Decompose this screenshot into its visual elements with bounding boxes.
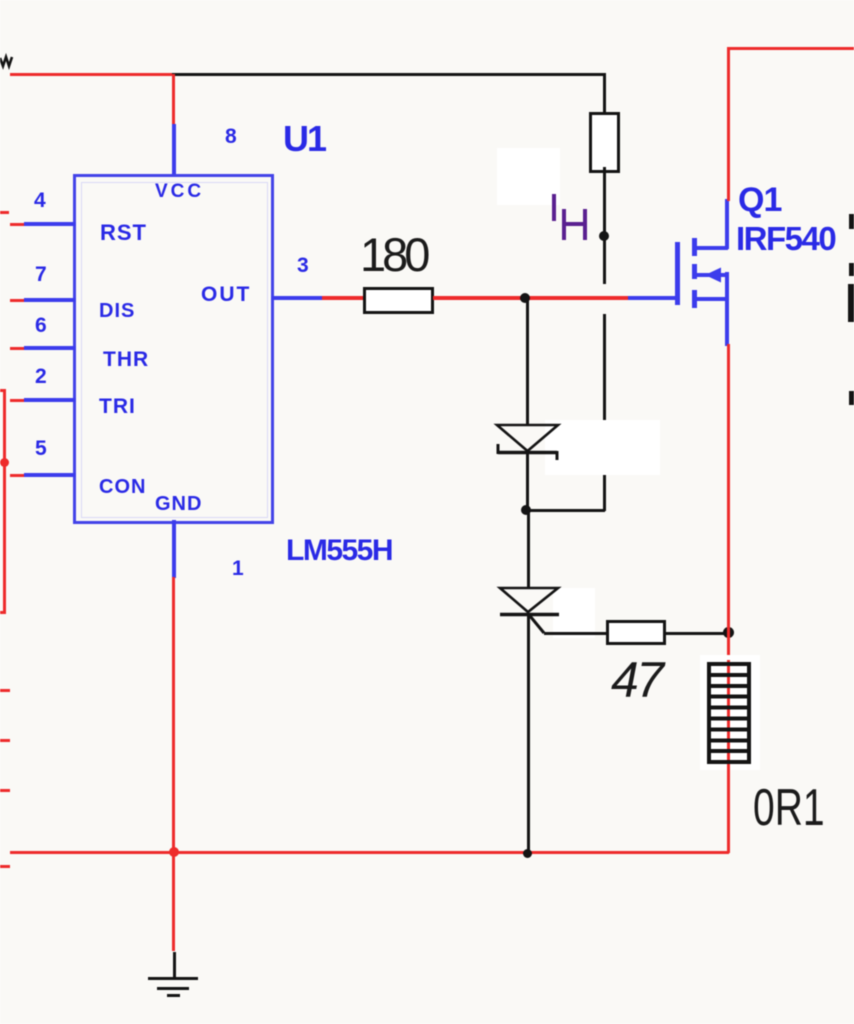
IC U1 inner faint border [81, 182, 268, 518]
label CON [99, 477, 146, 497]
IC U1 LM555 box [73, 174, 274, 524]
wire black ground stub [173, 952, 176, 978]
wire black I_H down upper segment [603, 239, 606, 284]
left edge red vertical wire [3, 389, 6, 614]
label U1 [283, 121, 325, 157]
label LM555H [286, 536, 392, 566]
MOSFET Q1 gate bar [675, 242, 680, 305]
resistor 47 box [606, 620, 666, 645]
pin number 1 [232, 558, 244, 579]
right edge cut text mark c [848, 284, 854, 322]
wire GND red drop [172, 577, 175, 951]
wire VCC drop blue segment (pin 8) [172, 124, 176, 176]
resistor 180 box [363, 287, 434, 314]
label VCC [155, 182, 204, 201]
left edge red tick e [0, 865, 10, 868]
pin number 3 [297, 255, 309, 276]
node junction dot zener mid [521, 505, 531, 515]
right edge cut text mark a [849, 214, 854, 229]
ground symbol bar 2 [157, 987, 189, 991]
white patch behind I_H [497, 148, 560, 205]
label 47 [611, 655, 662, 705]
label GND [155, 494, 202, 514]
pin 1 GND blue stub [172, 520, 176, 578]
label DIS [99, 301, 135, 321]
wire black between zeners [526, 452, 529, 512]
sense resistor top wire black [603, 74, 606, 115]
sense resistor bottom wire black [603, 167, 606, 238]
pin 2 TRI red tip [10, 399, 26, 402]
ground symbol bar 3 [167, 994, 180, 998]
label 0R1 [753, 782, 825, 834]
pin number 6 [35, 315, 47, 336]
wire black I_H down lower segment [603, 314, 606, 511]
label OUT [201, 284, 251, 305]
label I_H current (I) [552, 194, 556, 221]
pin 4 RST blue stub [24, 222, 76, 226]
left edge red tick b [0, 689, 10, 692]
label RST [100, 222, 147, 244]
wire black zener tap down [526, 300, 529, 426]
right edge cut text mark d [849, 391, 854, 405]
pin 7 DIS red tip [10, 299, 26, 302]
MOSFET Q1 drain vertical [725, 199, 730, 249]
node black junction dot zener bottom [523, 849, 532, 858]
left edge red bottom stub [0, 611, 5, 614]
cut-off label top-left [0, 50, 16, 72]
wire red drain up [727, 47, 730, 201]
shunt resistor 0R1 ladder [707, 662, 751, 764]
label TRI [99, 396, 136, 417]
pin 3 OUT blue stub [271, 296, 323, 300]
sense resistor box [589, 112, 620, 173]
left edge red top stub [0, 389, 5, 392]
zener diode D2 [492, 580, 572, 640]
MOSFET Q1 channel segment top [692, 238, 697, 256]
pin number 5 [35, 438, 47, 459]
label I_H current (H crossbar) [562, 222, 587, 226]
node junction dot at shunt top [723, 627, 734, 638]
MOSFET Q1 source horizontal [696, 297, 728, 301]
zener diode D1 [490, 418, 570, 468]
pin 4 RST red tip [10, 223, 26, 226]
pin number 8 [225, 126, 237, 147]
pin 6 THR red tip [10, 347, 26, 350]
right edge cut text mark b [849, 263, 854, 276]
wire black mid connector horizontal [526, 509, 605, 512]
node red dot on left wire [0, 458, 9, 467]
MOSFET Q1 drain horizontal [694, 246, 728, 250]
pin 5 CON blue stub [24, 473, 76, 477]
wire OUT red resistor to gate [433, 296, 631, 300]
white patch behind shunt [700, 655, 760, 770]
label Q1 [738, 183, 781, 217]
node junction dot at OUT/zener tap [520, 293, 530, 303]
pin number 7 [35, 264, 47, 285]
pin 7 DIS blue stub [24, 298, 76, 302]
white patch right of zener D2 [553, 588, 595, 638]
left edge red tick a [0, 211, 9, 214]
wire black zener to 47 resistor [544, 632, 607, 635]
MOSFET Q1 body arrowhead [705, 267, 722, 283]
pin number 4 [34, 190, 46, 211]
wire red top right rail [727, 47, 854, 50]
pin 6 THR blue stub [24, 346, 76, 350]
wire VCC drop red segment [172, 74, 175, 125]
node red junction dot GND rail [169, 847, 179, 857]
wire black zener D2 down to bottom rail [527, 614, 530, 854]
label I_H current (H left bar) [562, 209, 566, 240]
MOSFET Q1 gate wire blue [628, 296, 679, 300]
wire red bottom rail [10, 851, 729, 854]
wire VCC top red [10, 73, 173, 76]
wire black 47 to shunt [665, 632, 729, 635]
node I_H junction dot [599, 231, 609, 241]
label IRF540 [736, 222, 835, 255]
wire top black to sense resistor [172, 73, 606, 76]
left edge red tick c [0, 739, 10, 742]
MOSFET Q1 source vertical [725, 272, 730, 346]
wire red source down [727, 344, 730, 664]
ground symbol bar 1 [148, 977, 198, 981]
MOSFET Q1 channel segment middle [692, 264, 697, 279]
label 180 [360, 231, 426, 278]
MOSFET Q1 body arrow line [697, 273, 728, 277]
left edge red tick d [0, 789, 10, 792]
pin 5 CON red tip [10, 474, 26, 477]
wire OUT red to resistor 180 [322, 296, 366, 300]
label THR [103, 349, 149, 370]
wire red through shunt [727, 660, 730, 853]
pin 2 TRI blue stub [24, 398, 76, 402]
wire black down to zener D2 [527, 511, 530, 589]
pin number 2 [35, 366, 47, 387]
MOSFET Q1 channel segment bottom [692, 290, 697, 308]
label I_H current (H right bar) [583, 209, 587, 240]
white patch right of zener D1 [545, 420, 660, 475]
